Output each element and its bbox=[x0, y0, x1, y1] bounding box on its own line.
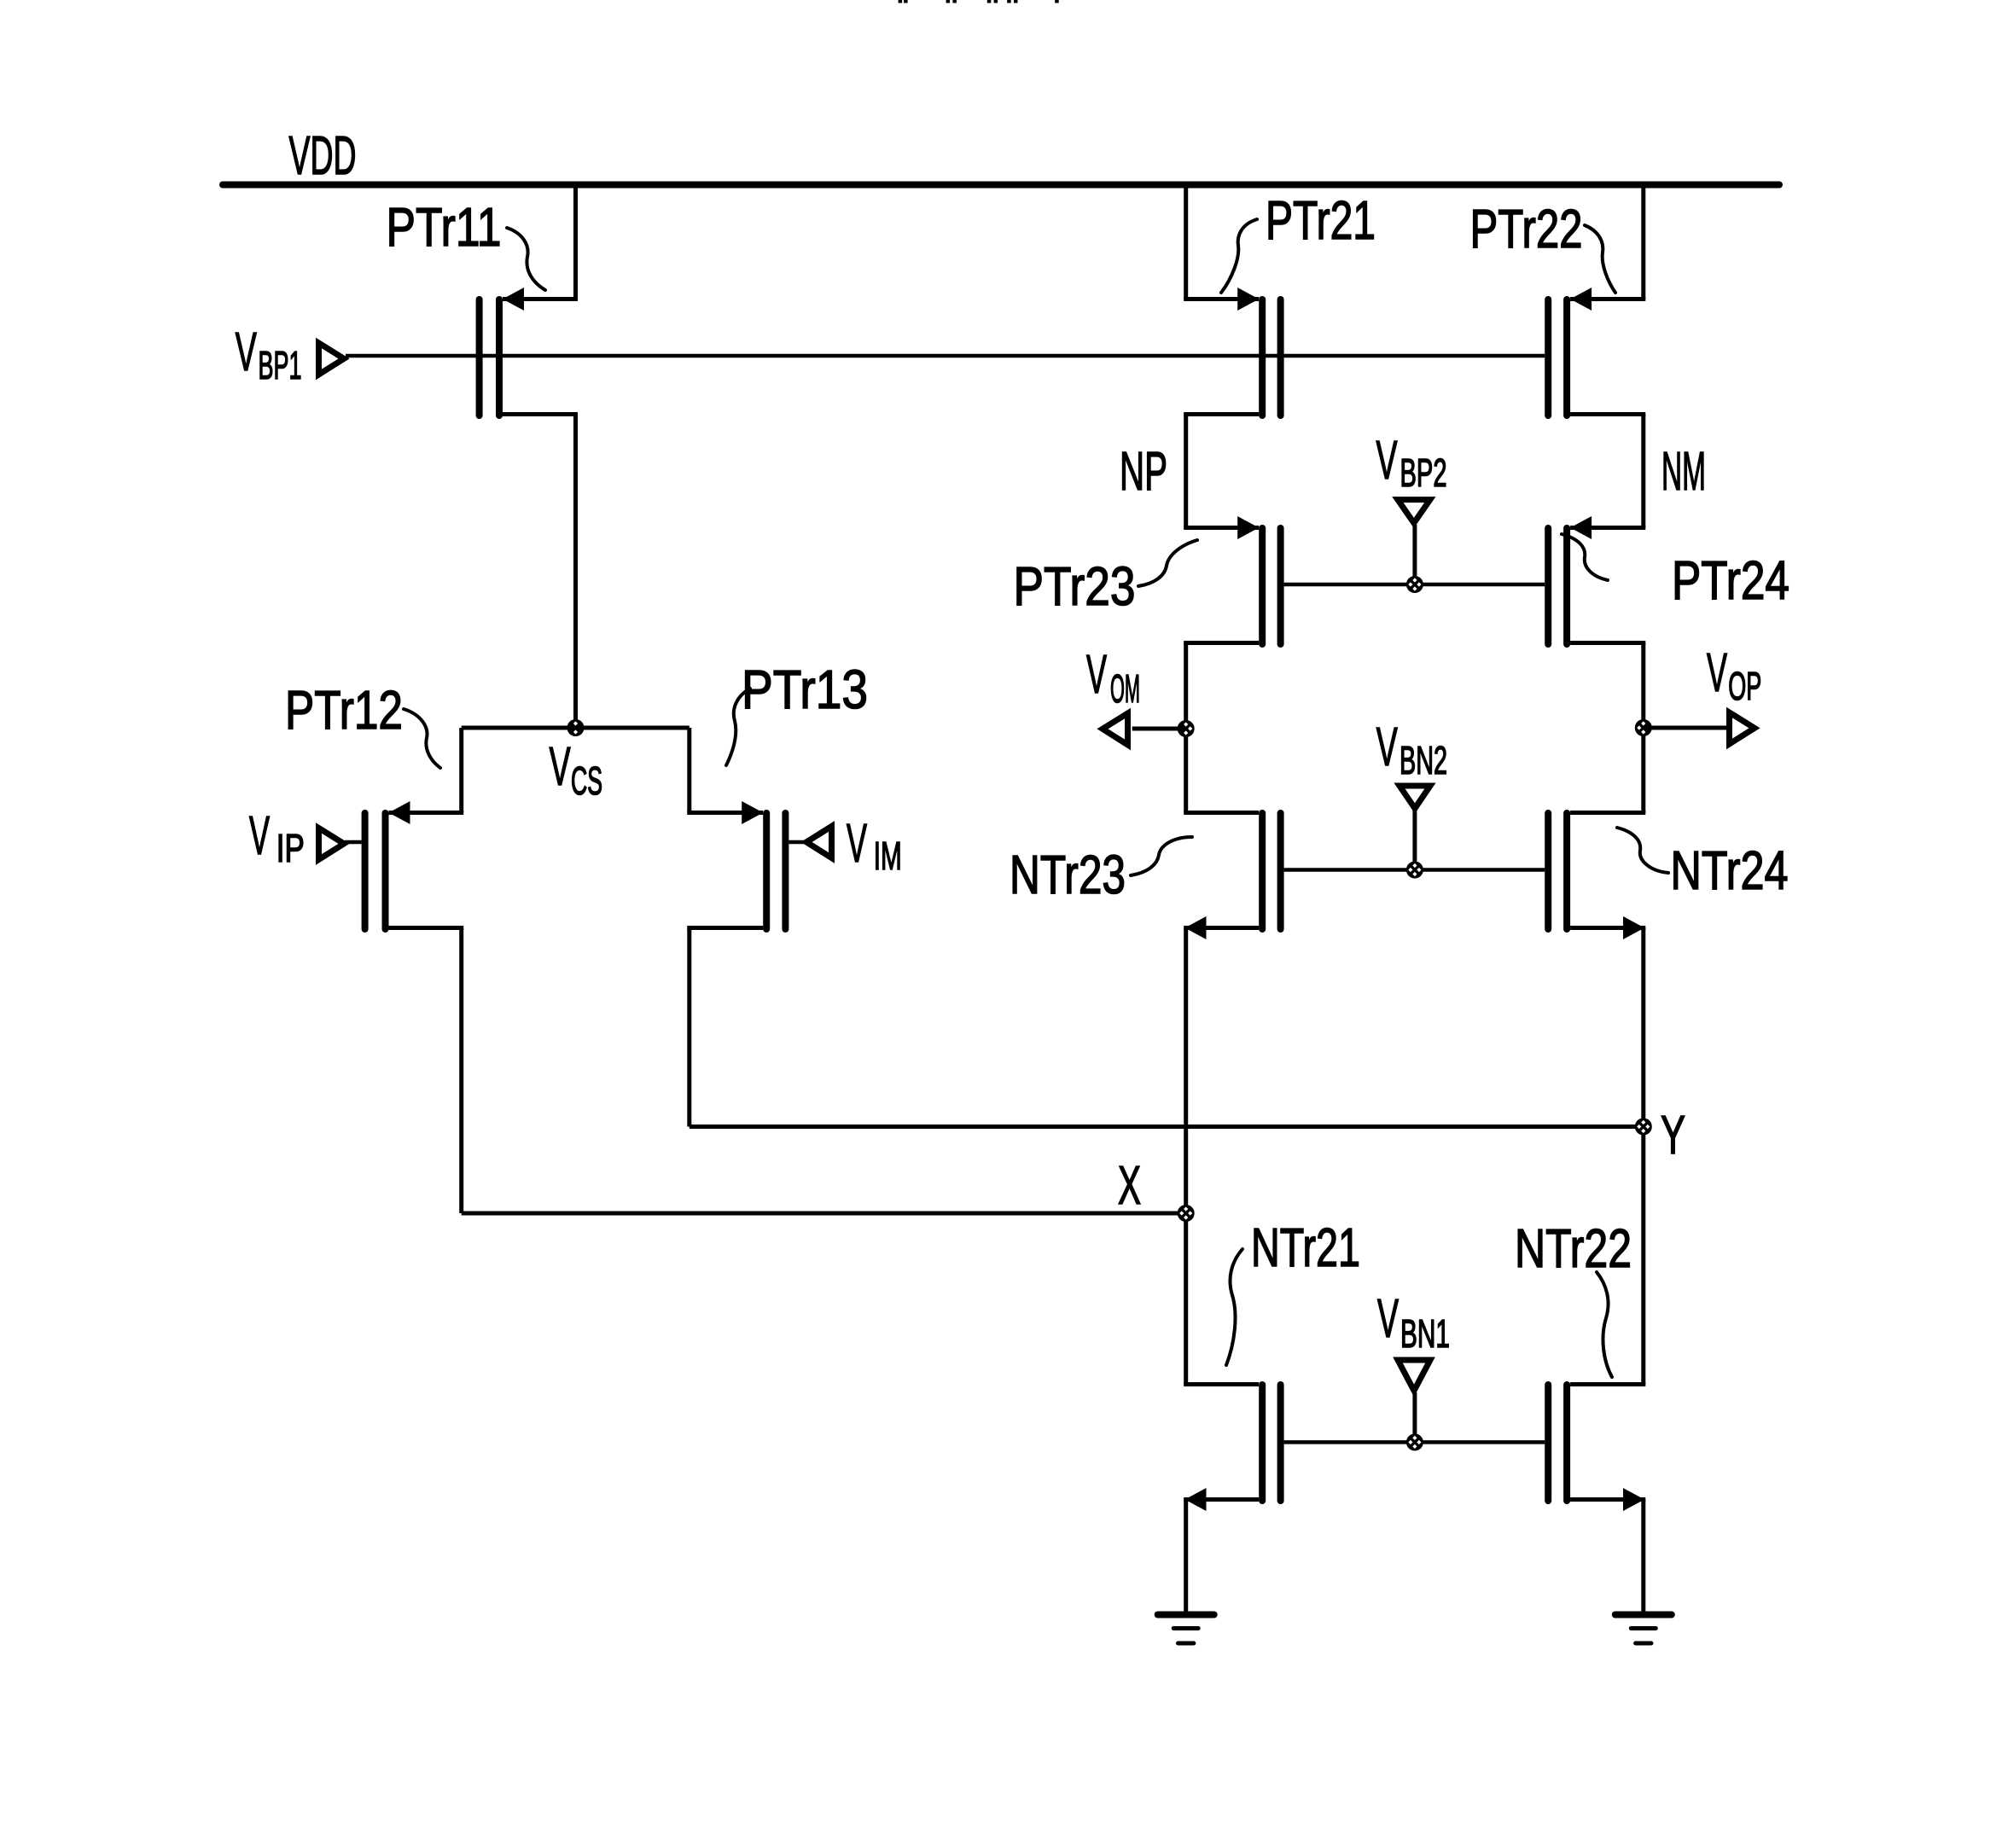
VIM input terminal triangle bbox=[806, 827, 832, 858]
VBP1 gate net wire bbox=[346, 354, 1545, 358]
svg-text:V: V bbox=[1086, 643, 1107, 705]
node VBP2 junction bbox=[1406, 576, 1423, 593]
svg-text:PTr12: PTr12 bbox=[285, 679, 403, 741]
wire VDD to PTr11 source bbox=[573, 185, 578, 299]
transistor PTr24 (PMOS cascode) bbox=[1545, 516, 1645, 648]
svg-text:V: V bbox=[1376, 716, 1398, 777]
VIP label bbox=[249, 805, 305, 870]
transistor PTr11 (PMOS) bbox=[476, 288, 578, 419]
node VOM junction bbox=[1178, 720, 1195, 737]
svg-text:NM: NM bbox=[1661, 440, 1706, 502]
transistor NTr21 (NMOS) bbox=[1184, 1381, 1283, 1511]
wire VIM to PTr13 gate bbox=[789, 840, 805, 845]
label NM bbox=[1661, 440, 1706, 502]
svg-text:V: V bbox=[1376, 429, 1398, 491]
VIP input terminal triangle bbox=[319, 828, 345, 860]
svg-text:V: V bbox=[249, 805, 270, 866]
svg-text:NP: NP bbox=[1120, 440, 1167, 502]
VIM label bbox=[847, 812, 902, 878]
wire VCS to PTr13 source bbox=[687, 728, 691, 813]
label NTr23 bbox=[1010, 844, 1126, 905]
VOM label bbox=[1086, 643, 1140, 711]
leader for NTr23 bbox=[1131, 837, 1192, 875]
svg-text:VDD: VDD bbox=[289, 125, 357, 186]
node VBN2 junction bbox=[1406, 862, 1423, 879]
leader for NTr24 bbox=[1617, 828, 1668, 873]
leader for PTr23 bbox=[1138, 540, 1197, 586]
wire VDD to PTr21 source bbox=[1184, 185, 1188, 299]
svg-text:Y: Y bbox=[1661, 1104, 1685, 1165]
svg-text:OP: OP bbox=[1728, 664, 1761, 708]
label NTr22 bbox=[1515, 1217, 1632, 1279]
svg-text:V: V bbox=[550, 735, 571, 797]
wire PTr24 drain to NTr24 drain bbox=[1641, 643, 1645, 813]
wire NTr24 source down to NTr22 drain bbox=[1641, 928, 1645, 1385]
VDD power rail bbox=[223, 182, 1779, 189]
svg-text:BN2: BN2 bbox=[1400, 738, 1447, 782]
wire VOM bbox=[1132, 727, 1186, 731]
label NTr24 bbox=[1671, 840, 1789, 901]
transistor NTr22 (NMOS) bbox=[1545, 1381, 1645, 1511]
VDD label bbox=[289, 125, 357, 186]
svg-text:V: V bbox=[1707, 642, 1727, 703]
wire VBN2 stem bbox=[1412, 811, 1417, 870]
label PTr12 bbox=[285, 679, 403, 741]
VCS label bbox=[550, 735, 602, 803]
leader for PTr13 bbox=[726, 689, 750, 765]
transistor PTr13 (PMOS) bbox=[687, 801, 789, 933]
wire PTr13 drain down to node Y line bbox=[687, 928, 691, 1127]
svg-text:PTr24: PTr24 bbox=[1672, 549, 1789, 611]
svg-text:NTr24: NTr24 bbox=[1671, 840, 1789, 901]
label PTr13 bbox=[742, 659, 868, 720]
label PTr24 bbox=[1672, 549, 1789, 611]
wire PTr23 drain to NTr23 drain bbox=[1184, 643, 1188, 813]
wire NTr22 source to ground bbox=[1641, 1500, 1645, 1614]
wire PTr12 drain down to node X line bbox=[459, 928, 463, 1214]
node VBN1 junction bbox=[1406, 1433, 1423, 1450]
wire NTr21 source to ground bbox=[1184, 1500, 1188, 1614]
VOP label bbox=[1707, 642, 1761, 708]
svg-text:V: V bbox=[847, 812, 867, 874]
transistor PTr12 (PMOS) bbox=[362, 801, 464, 933]
label NTr21 bbox=[1251, 1217, 1360, 1278]
wire node NP (PTr21 drain to PTr23 source) bbox=[1184, 415, 1188, 528]
gate net wire PTr23-PTr24 bbox=[1284, 583, 1545, 587]
label PTr21 bbox=[1266, 189, 1376, 251]
VBP2 label bbox=[1376, 429, 1447, 495]
svg-text:CS: CS bbox=[571, 758, 602, 803]
VBP2 bias terminal triangle bbox=[1398, 500, 1430, 523]
VOP output terminal triangle bbox=[1730, 712, 1755, 744]
transistor NTr24 (NMOS cascode) bbox=[1545, 810, 1645, 939]
label PTr11 bbox=[387, 196, 502, 258]
leader for NTr22 bbox=[1597, 1272, 1612, 1377]
label Y bbox=[1661, 1104, 1685, 1165]
wire VDD to PTr22 source bbox=[1641, 185, 1645, 299]
gate net wire NTr21-NTr22 bbox=[1284, 1440, 1545, 1444]
transistor NTr23 (NMOS cascode) bbox=[1184, 810, 1283, 939]
wire node Y horizontal bbox=[690, 1124, 1644, 1129]
leader for PTr22 bbox=[1585, 225, 1615, 293]
VBP1 label bbox=[236, 321, 302, 387]
svg-text:IP: IP bbox=[276, 826, 305, 870]
svg-text:BN1: BN1 bbox=[1400, 1311, 1450, 1356]
VBN1 bias terminal triangle bbox=[1398, 1360, 1430, 1391]
svg-text:OM: OM bbox=[1110, 666, 1140, 711]
label X bbox=[1118, 1154, 1141, 1216]
wire NTr23 source down to NTr21 drain bbox=[1184, 928, 1188, 1385]
svg-text:NTr21: NTr21 bbox=[1251, 1217, 1360, 1278]
leader for PTr12 bbox=[404, 709, 440, 768]
wire node X horizontal bbox=[462, 1212, 1186, 1216]
label PTr23 bbox=[1014, 555, 1136, 617]
wire node NM (PTr22 drain to PTr24 source) bbox=[1641, 415, 1645, 528]
ground symbol right bbox=[1612, 1612, 1675, 1646]
VBP1 input terminal triangle bbox=[319, 343, 345, 375]
ground symbol left bbox=[1155, 1612, 1218, 1646]
svg-text:BP1: BP1 bbox=[259, 343, 302, 387]
VOM output terminal triangle bbox=[1103, 713, 1128, 745]
node VCS junction bbox=[567, 719, 585, 736]
wire VCS to PTr12 source bbox=[459, 728, 463, 813]
leader for NTr21 bbox=[1226, 1249, 1242, 1365]
svg-text:NTr22: NTr22 bbox=[1515, 1217, 1632, 1279]
svg-text:PTr22: PTr22 bbox=[1470, 198, 1583, 259]
node Y junction bbox=[1635, 1119, 1652, 1136]
leader for PTr11 bbox=[507, 228, 545, 290]
wire VCS horizontal bbox=[462, 726, 690, 730]
svg-text:PTr23: PTr23 bbox=[1014, 555, 1136, 617]
svg-text:PTr13: PTr13 bbox=[742, 659, 868, 720]
VBN1 label bbox=[1377, 1287, 1450, 1356]
label PTr22 bbox=[1470, 198, 1583, 259]
leader for PTr21 bbox=[1221, 219, 1257, 293]
svg-text:V: V bbox=[1377, 1287, 1399, 1349]
svg-text:BP2: BP2 bbox=[1400, 450, 1447, 495]
leader for PTr24 bbox=[1562, 534, 1608, 580]
label NP bbox=[1120, 440, 1167, 502]
svg-text:V: V bbox=[236, 321, 257, 382]
VBN2 label bbox=[1376, 716, 1447, 782]
wire VBP2 stem bbox=[1412, 525, 1417, 584]
wire VBN1 stem bbox=[1412, 1392, 1417, 1442]
transistor PTr21 (PMOS) bbox=[1184, 288, 1283, 419]
node VOP junction bbox=[1635, 719, 1652, 736]
wire VIP to PTr12 gate bbox=[345, 840, 362, 845]
wire VOP bbox=[1644, 726, 1729, 730]
node X junction bbox=[1178, 1205, 1195, 1222]
wire PTr11 drain to node VCS bbox=[573, 415, 578, 729]
transistor PTr22 (PMOS) bbox=[1545, 288, 1645, 419]
svg-text:NTr23: NTr23 bbox=[1010, 844, 1126, 905]
svg-text:IM: IM bbox=[874, 834, 902, 878]
clipped figure caption fragment at top edge bbox=[899, 0, 1059, 3]
svg-text:X: X bbox=[1118, 1154, 1141, 1216]
svg-text:PTr11: PTr11 bbox=[387, 196, 502, 258]
gate net wire NTr23-NTr24 bbox=[1284, 868, 1545, 872]
transistor PTr23 (PMOS cascode) bbox=[1184, 516, 1283, 648]
VBN2 bias terminal triangle bbox=[1400, 786, 1430, 809]
svg-text:PTr21: PTr21 bbox=[1266, 189, 1376, 251]
